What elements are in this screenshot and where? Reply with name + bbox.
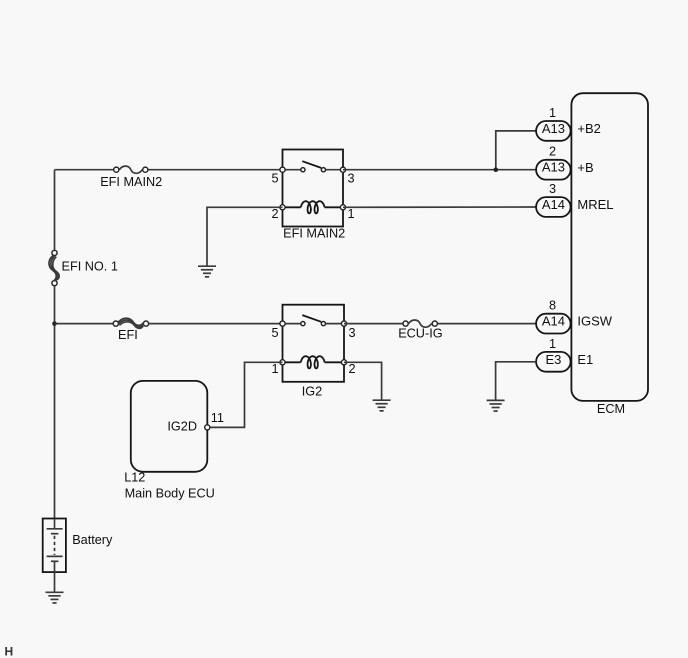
wire: IG2 pin 3 to ECU-IG fuse xyxy=(344,323,403,325)
svg-text:E1: E1 xyxy=(577,352,593,367)
wire: bus to EFI fuse xyxy=(55,323,113,325)
svg-text:1: 1 xyxy=(549,106,556,120)
svg-text:5: 5 xyxy=(271,172,278,186)
wire: IG2 pin 2 to ground xyxy=(344,362,382,400)
battery xyxy=(43,519,113,573)
svg-text:+B: +B xyxy=(577,160,593,175)
wire: relay pin 2 to ground xyxy=(207,207,283,266)
svg-text:Battery: Battery xyxy=(72,533,113,547)
svg-text:2: 2 xyxy=(549,145,556,159)
wire: battery to ground xyxy=(54,572,56,592)
svg-text:A13: A13 xyxy=(542,160,565,175)
svg-text:11: 11 xyxy=(211,411,224,425)
relay EFI MAIN2 box xyxy=(283,150,344,227)
fuse ECU-IG xyxy=(398,320,442,341)
wire: Main Body ECU pin 11 to IG2 pin 1 xyxy=(210,362,282,427)
wire: main vertical bus from top-left corner to battery xyxy=(54,170,56,519)
relay EFI MAIN2 switch contacts xyxy=(286,161,341,172)
svg-text:1: 1 xyxy=(549,337,556,351)
ground (battery) xyxy=(46,592,64,603)
fusible link EFI xyxy=(113,318,148,342)
wire: top horizontal run battery bus to EFI MAIN2 fuse xyxy=(55,169,114,171)
ground (relay IG2 coil) xyxy=(373,400,391,411)
svg-text:IG2: IG2 xyxy=(302,385,322,399)
wire: relay pin 3 to ECM +B with branch to +B2 xyxy=(343,131,536,170)
fusible link EFI NO. 1 xyxy=(49,250,118,285)
svg-text:1: 1 xyxy=(348,207,355,221)
svg-text:EFI: EFI xyxy=(118,328,138,342)
connector A14 / MREL xyxy=(536,197,571,217)
svg-text:EFI NO. 1: EFI NO. 1 xyxy=(62,260,118,274)
svg-text:MREL: MREL xyxy=(577,197,613,212)
svg-text:A13: A13 xyxy=(542,121,565,136)
svg-text:EFI MAIN2: EFI MAIN2 xyxy=(283,227,345,241)
relay EFI MAIN2 coil xyxy=(286,206,341,208)
junction dot lower bus xyxy=(52,321,57,326)
svg-text:2: 2 xyxy=(271,207,278,221)
svg-text:L12: L12 xyxy=(124,471,145,485)
wire: relay pin 1 to ECM MREL xyxy=(343,206,536,208)
svg-text:ECM: ECM xyxy=(597,402,625,416)
svg-text:Main Body ECU: Main Body ECU xyxy=(125,486,215,500)
svg-text:3: 3 xyxy=(348,172,355,186)
relay IG2 pin numbers 5 3 1 2 xyxy=(271,326,355,376)
relay IG2 switch contacts xyxy=(286,315,342,326)
fuse EFI MAIN2 xyxy=(100,166,162,189)
wire: EFI fuse to relay IG2 pin 5 xyxy=(149,323,282,325)
svg-text:E3: E3 xyxy=(545,352,561,367)
relay EFI MAIN2 pin numbers 5 3 2 1 xyxy=(271,172,354,221)
relay EFI MAIN2 pin circles xyxy=(280,167,346,210)
junction dot at +B branch xyxy=(494,167,499,172)
ground (ECM E1) xyxy=(487,400,505,411)
connector E3 / E1 xyxy=(536,352,571,372)
Main Body ECU L12 box xyxy=(131,381,208,472)
svg-text:A14: A14 xyxy=(542,314,565,329)
relay IG2 box xyxy=(283,305,345,382)
svg-text:+B2: +B2 xyxy=(577,121,601,136)
pin 11 circle xyxy=(205,425,210,430)
svg-text:IG2D: IG2D xyxy=(167,419,197,433)
connector A13 / +B2 xyxy=(536,121,571,141)
relay IG2 coil xyxy=(286,361,342,363)
svg-text:1: 1 xyxy=(271,362,278,376)
svg-text:3: 3 xyxy=(349,326,356,340)
wire: fuse to relay pin 5 xyxy=(148,169,282,171)
svg-text:H: H xyxy=(5,645,14,658)
svg-text:A14: A14 xyxy=(542,197,565,212)
svg-text:EFI MAIN2: EFI MAIN2 xyxy=(100,175,162,189)
relay IG2 pin circles xyxy=(280,321,347,365)
svg-text:5: 5 xyxy=(271,326,278,340)
connector A13 / +B xyxy=(536,160,571,180)
ECM box xyxy=(571,93,648,401)
wire: ECU-IG fuse to ECM IGSW xyxy=(438,323,537,325)
ground (relay EFI MAIN2 coil) xyxy=(198,266,216,277)
svg-text:2: 2 xyxy=(349,362,356,376)
connector A14 / IGSW xyxy=(536,314,571,334)
wire: ECM E1 to ground xyxy=(496,362,537,401)
svg-text:3: 3 xyxy=(549,182,556,196)
svg-text:8: 8 xyxy=(549,299,556,313)
svg-text:ECU-IG: ECU-IG xyxy=(398,327,442,341)
svg-text:IGSW: IGSW xyxy=(577,314,612,329)
